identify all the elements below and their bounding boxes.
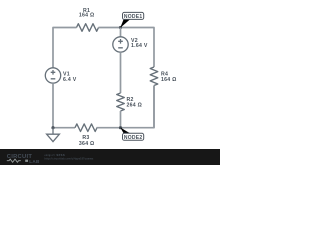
wire bottom-right segment <box>121 86 155 128</box>
svg-text:6.4 V: 6.4 V <box>63 77 77 83</box>
junction node2 dot <box>119 126 122 129</box>
junction node1 dot <box>119 26 122 29</box>
svg-text:264 Ω: 264 Ω <box>127 103 143 109</box>
resistor R3 <box>75 124 97 132</box>
svg-text:164 Ω: 164 Ω <box>79 13 95 19</box>
circuitlab logo <box>7 154 40 164</box>
wire R4 bottom lead <box>153 86 155 128</box>
wire V2 bottom to R2 <box>120 52 122 93</box>
wire V2 top lead <box>120 28 122 37</box>
svg-text:164 Ω: 164 Ω <box>161 77 177 83</box>
wire top-middle segment <box>99 27 121 29</box>
junction ground dot <box>51 126 54 129</box>
svg-text:http://circuitlab.com/c/4pya18: http://circuitlab.com/c/4pya187uamwx <box>45 157 94 161</box>
svg-text:364 Ω: 364 Ω <box>79 141 95 147</box>
voltage source V2 <box>113 37 128 52</box>
svg-text:1.64 V: 1.64 V <box>131 43 148 49</box>
svg-text:NODE2: NODE2 <box>124 135 143 141</box>
wire bottom-left segment <box>53 127 75 129</box>
resistor R2 <box>117 93 125 111</box>
resistor R4 <box>150 67 158 85</box>
node NODE2 label callout <box>120 127 144 140</box>
wire R2 bottom lead <box>120 111 122 128</box>
wire top-right segment <box>121 28 155 68</box>
watermark bar <box>0 149 220 165</box>
ground symbol <box>47 128 60 142</box>
wire top-left segment (node1 net) <box>53 28 77 69</box>
wire bottom-middle segment <box>97 127 121 129</box>
node NODE1 label callout <box>120 12 144 28</box>
voltage source V1 <box>45 68 60 83</box>
wire V1 bottom lead <box>52 83 54 128</box>
svg-text:NODE1: NODE1 <box>124 14 143 20</box>
resistor R1 <box>77 24 99 32</box>
svg-text:LAB: LAB <box>29 159 40 164</box>
